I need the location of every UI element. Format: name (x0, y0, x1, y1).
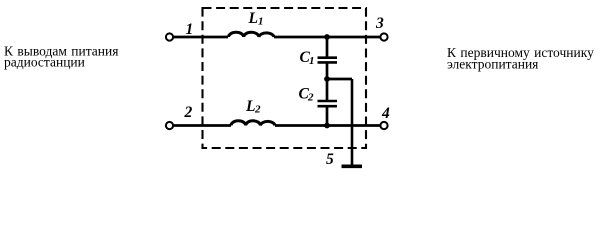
C1 label (300, 49, 315, 67)
svg-text:электропитания: электропитания (447, 56, 538, 71)
svg-text:1: 1 (309, 55, 315, 67)
terminal 3 (380, 33, 387, 40)
ground (342, 165, 363, 169)
svg-text:1: 1 (186, 21, 194, 38)
svg-text:L: L (245, 98, 255, 115)
L2 label (245, 98, 261, 116)
svg-text:2: 2 (307, 92, 314, 104)
svg-text:радиостанции: радиостанции (4, 55, 85, 70)
node A junction dot (top wire / C1) (324, 34, 330, 40)
wire L2 to terminal 4 (275, 124, 381, 127)
wire terminal2 to L2 (174, 124, 232, 127)
svg-text:5: 5 (326, 151, 334, 168)
node C junction dot (bottom wire / C2) (324, 123, 330, 129)
terminal 1 (166, 33, 173, 40)
C2 label (299, 86, 315, 104)
terminal 4 (380, 122, 387, 129)
wire mid node to ground branch (327, 78, 352, 81)
wire L1 to terminal 3 (274, 36, 381, 39)
L1 label (248, 10, 264, 28)
inductor L2 (231, 121, 275, 126)
svg-text:1: 1 (258, 16, 264, 28)
right annotation text (447, 45, 594, 71)
svg-text:3: 3 (375, 15, 384, 32)
svg-text:4: 4 (381, 105, 390, 122)
capacitor C1 (318, 37, 338, 79)
wire terminal1 to L1 (174, 36, 229, 39)
svg-text:2: 2 (254, 104, 261, 116)
capacitor C2 (318, 79, 338, 126)
wire ground branch vertical (351, 79, 354, 165)
svg-text:L: L (248, 10, 258, 27)
terminal 2 (166, 122, 173, 129)
node B junction dot (C1/C2 mid node) (324, 76, 330, 82)
svg-text:2: 2 (184, 104, 193, 121)
inductor L1 (229, 32, 275, 37)
left annotation text (4, 44, 118, 70)
dashed enclosure box (203, 8, 367, 148)
